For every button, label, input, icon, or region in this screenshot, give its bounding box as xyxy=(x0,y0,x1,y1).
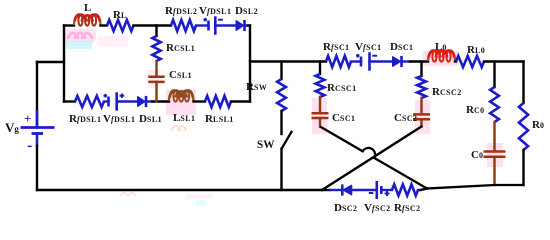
wire L0 to RL0 xyxy=(455,60,456,62)
wire RfSC2 to right junction xyxy=(421,189,428,191)
svg-text:+: + xyxy=(24,111,31,126)
wire diagonal CSC2 to left junction xyxy=(322,127,422,191)
wire VfSC2 to RfSC2 xyxy=(381,189,392,191)
svg-text:VfSC2: VfSC2 xyxy=(364,202,391,214)
lead RCSC1 to CSC1 xyxy=(319,97,321,113)
svg-text:RfSC1: RfSC1 xyxy=(323,41,350,53)
wire DSL1 to node B xyxy=(146,100,152,102)
svg-text:RL: RL xyxy=(113,9,127,21)
svg-text:C0: C0 xyxy=(471,149,483,161)
wire RL0 to top-right corner xyxy=(484,60,524,62)
resistor RCSC1 xyxy=(316,74,357,97)
wire RCSC1 branch top xyxy=(319,62,321,75)
wire middle from loop1 xyxy=(250,60,326,62)
wire bottom-left segment xyxy=(64,100,75,102)
lead CSC1 down xyxy=(319,118,321,127)
wire node A down xyxy=(155,26,157,37)
wire top-left segment xyxy=(64,24,74,26)
svg-text:CSL1: CSL1 xyxy=(169,69,192,81)
svg-text:LSL1: LSL1 xyxy=(173,112,195,124)
lead CSL1 to node B xyxy=(155,82,157,102)
svg-text:RCSC1: RCSC1 xyxy=(327,82,357,94)
lead C0 down xyxy=(493,157,495,185)
resistor RC0 xyxy=(466,87,499,122)
battery VfSC2 xyxy=(364,181,391,214)
diode DSC1 xyxy=(390,41,414,67)
svg-text:RSW: RSW xyxy=(246,81,267,93)
pink highlight behind L0 xyxy=(423,51,459,66)
resistor RfSC1 xyxy=(323,41,351,67)
capacitor CSC1 xyxy=(312,112,356,124)
capacitor CSL1 xyxy=(148,69,192,82)
wire RL to node A xyxy=(134,24,172,26)
faint artifact near bottom rail xyxy=(120,192,212,206)
wire diagonal CSC1 to right junction with hop xyxy=(320,127,427,189)
lead RCSC2 to CSC2 xyxy=(420,98,422,114)
wire bottom rail left xyxy=(37,189,322,191)
lead RC0 to C0 xyxy=(493,122,495,152)
svg-text:CSC1: CSC1 xyxy=(332,112,356,124)
wire loop1 right edge xyxy=(249,26,251,102)
pink highlight behind CSL1 xyxy=(147,70,159,88)
svg-text:R0: R0 xyxy=(532,119,544,131)
svg-text:RCSL1: RCSL1 xyxy=(166,42,195,54)
svg-text:CSC2: CSC2 xyxy=(394,112,418,124)
wire loop1 left edge xyxy=(63,26,65,102)
resistor RLSL1 xyxy=(205,96,234,125)
wire RfDSL2 to VfDSL2 xyxy=(196,24,209,26)
wire RSW branch top xyxy=(280,62,282,80)
wire RCSC2 branch top xyxy=(420,62,422,77)
diode DSL1 xyxy=(138,96,162,125)
wire switch to bottom rail xyxy=(280,149,282,190)
wire RfSC2 blue tail xyxy=(418,189,421,191)
source Vg xyxy=(5,110,55,154)
inductor LSL1 xyxy=(169,90,195,124)
wire tap down to Vg xyxy=(36,62,38,128)
wire RfSC1 to VfSC1 xyxy=(351,60,361,62)
svg-text:RCSC2: RCSC2 xyxy=(432,86,462,98)
wire bottom rail right xyxy=(427,185,524,189)
svg-text:RLSL1: RLSL1 xyxy=(205,113,234,125)
wire RSW to switch xyxy=(280,111,282,134)
svg-text:RC0: RC0 xyxy=(466,104,485,116)
wire DSC2 to VfSC2 xyxy=(352,189,377,191)
svg-text:RL0: RL0 xyxy=(467,44,485,56)
svg-text:DSL2: DSL2 xyxy=(235,5,258,17)
wire VfDSL1 to DSL1 xyxy=(117,100,138,102)
resistor R0 xyxy=(519,103,545,150)
pink highlight behind CSC2 xyxy=(415,100,430,134)
svg-text:-: - xyxy=(27,137,32,154)
lead RCSL1 to CSL1 xyxy=(155,61,157,77)
resistor RSW xyxy=(246,79,286,111)
wire DSL2 to top-right corner xyxy=(245,24,249,26)
resistor RCSC2 xyxy=(417,76,462,98)
switch SW xyxy=(257,132,292,151)
wire right rail down xyxy=(522,62,524,104)
diode DSL2 xyxy=(235,5,258,31)
svg-text:L: L xyxy=(84,2,91,14)
wire Vg down xyxy=(36,146,38,190)
resistor RfSC2 xyxy=(392,184,421,214)
wire RLSL1 to bottom-right corner xyxy=(231,100,250,102)
svg-text:VfDSL1: VfDSL1 xyxy=(199,5,231,17)
resistor RCSL1 xyxy=(152,36,195,61)
pink highlight behind CSC1 xyxy=(312,98,327,134)
wire bottom branch left blue xyxy=(330,189,342,191)
pink highlight behind LSL1 xyxy=(166,89,196,115)
wire tap left xyxy=(37,61,64,63)
wire VfSC1 to DSC1 xyxy=(370,60,393,62)
svg-text:VfDSL1: VfDSL1 xyxy=(103,113,135,125)
svg-text:DSC1: DSC1 xyxy=(390,41,414,53)
ghost highlight under inductor L xyxy=(64,29,128,49)
svg-text:VfSC1: VfSC1 xyxy=(355,41,382,53)
capacitor C0 xyxy=(471,149,506,161)
ghost coil under LSL1 xyxy=(172,126,186,131)
svg-text:SW: SW xyxy=(257,139,275,151)
wire bottom branch left black xyxy=(322,189,330,191)
pink highlight behind C0 xyxy=(487,143,503,167)
wire L to RL xyxy=(101,24,108,26)
wire RC0 branch top xyxy=(493,62,495,88)
resistor RfDSL1 xyxy=(69,96,104,125)
svg-text:DSL1: DSL1 xyxy=(139,113,162,125)
svg-text:L0: L0 xyxy=(435,41,447,53)
resistor RL xyxy=(107,9,134,31)
wire DSC1 to node C xyxy=(401,60,410,62)
wire LSL1 to RLSL1 xyxy=(194,100,206,102)
capacitor CSC2 xyxy=(394,112,430,124)
resistor RL0 xyxy=(456,44,485,67)
battery VfDSL1 xyxy=(103,92,135,125)
diode DSC2 xyxy=(334,184,358,214)
inductor L xyxy=(74,2,101,26)
inductor L0 xyxy=(428,41,455,62)
lead CSC2 down xyxy=(420,119,422,126)
svg-text:RfDSL2: RfDSL2 xyxy=(165,5,197,17)
wire R0 to bottom xyxy=(522,150,524,185)
svg-text:RfDSL1: RfDSL1 xyxy=(69,113,101,125)
wire RfDSL1 to VfDSL1 xyxy=(104,100,109,102)
svg-text:DSC2: DSC2 xyxy=(334,202,358,214)
battery VfSC1 xyxy=(355,41,382,71)
resistor RfDSL2 xyxy=(165,5,197,31)
svg-text:RfSC2: RfSC2 xyxy=(394,202,421,214)
battery VfDSL2 xyxy=(199,5,231,35)
wire VfDSL2 to DSL2 xyxy=(215,24,236,26)
